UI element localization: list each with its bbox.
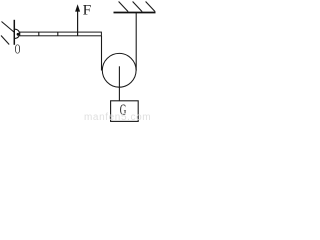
right rope (ceiling to pulley) [135, 13, 137, 71]
left rope (beam end to pulley) [101, 36, 103, 71]
beam tick 1 [38, 32, 40, 36]
svg-text:O: O [15, 43, 21, 58]
wall hatch 1 [2, 22, 15, 33]
ceiling hatch 2 [133, 2, 143, 12]
svg-text:manfen5.com: manfen5.com [84, 112, 151, 123]
weight box [111, 101, 139, 122]
force arrow F shaft [77, 10, 79, 36]
arrowhead [75, 4, 80, 11]
ceiling line [114, 12, 156, 14]
ceiling hatch 1 [119, 2, 129, 12]
svg-text:F: F [83, 3, 92, 19]
wall hatch 2 [1, 36, 9, 45]
pulley wheel [102, 53, 136, 87]
pivot bracket [15, 29, 20, 38]
beam (lever) [20, 32, 102, 36]
beam tick 2 [57, 32, 59, 36]
pivot pin [17, 33, 20, 36]
axle hanger line [118, 66, 120, 101]
wall line [13, 20, 15, 45]
ceiling hatch 3 [146, 2, 156, 12]
